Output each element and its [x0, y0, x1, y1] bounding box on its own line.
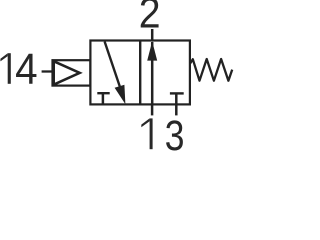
port 14 connection line — [42, 70, 53, 72]
valve body: two position boxes — [90, 41, 189, 105]
flow path arrow 2->3 (diagonal) in left box — [105, 42, 126, 105]
port label 1 (bottom), custom glyph — [141, 118, 152, 149]
svg-text:2: 2 — [139, 0, 161, 38]
svg-text:4: 4 — [15, 45, 37, 94]
port 1 connection line (bottom) — [151, 104, 154, 115]
return spring — [190, 59, 232, 81]
svg-text:3: 3 — [165, 113, 185, 153]
port label 1 (of 14), custom glyph — [0, 53, 10, 84]
pilot triangle — [52, 59, 82, 86]
blocked port 1 symbol (T) in left box — [97, 93, 109, 104]
pilot box — [53, 60, 91, 85]
flow path arrow 1->2 in right box — [147, 41, 157, 104]
blocked port 3 symbol (T) in right box — [170, 93, 184, 115]
port 2 connection line (top) — [151, 29, 154, 41]
